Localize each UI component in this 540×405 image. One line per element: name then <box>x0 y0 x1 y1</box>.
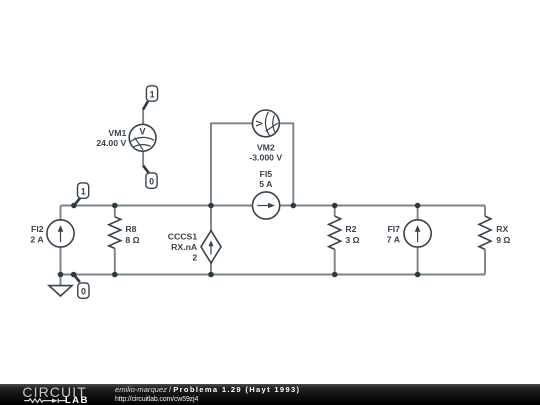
junction node 0 <box>71 272 77 278</box>
node 1 tick VM1 <box>143 101 148 109</box>
svg-text:LAB: LAB <box>65 395 89 405</box>
node 0 tick VM1 <box>143 166 149 173</box>
wire RX top <box>484 206 486 217</box>
label R8 <box>125 224 139 245</box>
svg-text:0: 0 <box>149 177 154 187</box>
wire CCCS1 top <box>210 206 212 231</box>
node 1 tick left <box>74 198 80 205</box>
svg-text:3 Ω: 3 Ω <box>345 235 359 245</box>
label RX <box>496 224 510 245</box>
svg-text:-3.000 V: -3.000 V <box>249 152 282 162</box>
dependent source CCCS1 <box>201 231 221 263</box>
wire VM1 top lead <box>142 109 144 125</box>
resistor R8 <box>109 217 121 249</box>
svg-text:V: V <box>139 127 145 137</box>
label FI2 <box>30 224 44 245</box>
resistor R2 <box>329 216 341 249</box>
node 0 box left <box>78 283 89 298</box>
resistor RX <box>479 216 491 249</box>
junction CCCS1 top <box>208 203 214 209</box>
label FI7 <box>387 224 401 244</box>
junction FI7 top <box>415 203 421 209</box>
wire top rail right <box>280 205 485 207</box>
svg-text:VM1: VM1 <box>108 128 126 138</box>
junction FI2 bottom <box>58 272 64 278</box>
current source FI2 <box>47 220 74 247</box>
svg-text:24.00 V: 24.00 V <box>96 138 126 148</box>
wire FI7 top <box>417 206 419 220</box>
footer caption <box>115 386 300 404</box>
svg-text:8 Ω: 8 Ω <box>125 235 139 245</box>
wire FI2 top <box>60 206 62 220</box>
junction R8 top <box>112 203 118 209</box>
wire RX bottom <box>484 249 486 274</box>
voltmeter VM2 <box>253 110 280 137</box>
junction CCCS1 bottom <box>208 272 214 278</box>
svg-text:VM2: VM2 <box>257 143 275 153</box>
junction FI7 bottom <box>415 272 421 278</box>
wire R8 bottom <box>114 248 116 274</box>
svg-text:RX: RX <box>496 224 508 234</box>
wire VM1 bottom lead <box>142 151 144 166</box>
label VM2 <box>249 143 282 163</box>
svg-text:2: 2 <box>192 252 197 262</box>
wire R2 top <box>334 206 336 217</box>
svg-text:R8: R8 <box>125 224 136 234</box>
svg-text:0: 0 <box>81 287 86 297</box>
junction R2 bottom <box>332 272 338 278</box>
svg-text:7 A: 7 A <box>387 235 401 245</box>
svg-text:FI2: FI2 <box>31 224 44 234</box>
junction VM2 right <box>291 203 297 209</box>
svg-text:1: 1 <box>150 90 155 100</box>
wire FI2 bottom <box>60 247 62 275</box>
svg-text:RX.nA: RX.nA <box>171 242 198 252</box>
node 1 box VM1 <box>146 86 157 101</box>
current source FI5 <box>253 192 280 219</box>
wire ground stub <box>60 275 62 286</box>
node 1 box left <box>78 183 89 198</box>
wire VM2 left branch <box>211 123 253 205</box>
wire bottom rail <box>61 274 486 276</box>
svg-text:9 Ω: 9 Ω <box>496 235 510 245</box>
ground <box>49 286 72 296</box>
svg-text:CCCS1: CCCS1 <box>168 231 198 241</box>
node 0 tick left <box>74 275 80 283</box>
logo resistor-diode glyph <box>24 399 65 403</box>
junction R2 top <box>332 203 338 209</box>
voltmeter VM1 <box>129 124 156 151</box>
junction R8 bottom <box>112 272 118 278</box>
label R2 <box>345 224 359 245</box>
wire top rail left <box>61 205 253 207</box>
junction top rail node 1 <box>71 203 77 209</box>
wire VM2 right branch <box>279 123 293 205</box>
svg-text:5 A: 5 A <box>259 179 273 189</box>
svg-text:1: 1 <box>81 187 86 197</box>
wire CCCS1 bottom <box>210 263 212 275</box>
label CCCS1 <box>168 231 198 262</box>
node 0 box VM1 <box>146 173 157 188</box>
footer bar <box>0 384 540 405</box>
svg-text:FI5: FI5 <box>260 169 273 179</box>
logo diode triangle <box>52 399 58 403</box>
svg-text:R2: R2 <box>345 224 356 234</box>
wire R2 bottom <box>334 249 336 274</box>
wire FI7 bottom <box>417 247 419 275</box>
label VM1 <box>96 128 126 148</box>
wire R8 top <box>114 206 116 217</box>
svg-text:2 A: 2 A <box>30 234 44 244</box>
svg-text:V: V <box>255 120 265 126</box>
label FI5 <box>259 169 273 189</box>
current source FI7 <box>404 220 431 247</box>
svg-text:FI7: FI7 <box>387 224 400 234</box>
